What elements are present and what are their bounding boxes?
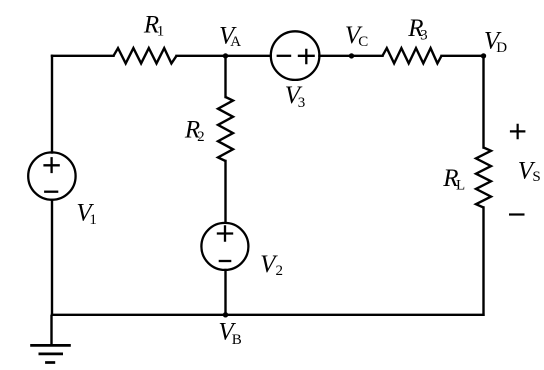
minus sign annotation for VS (509, 213, 525, 215)
wire V3 to R3 (through node C) (319, 55, 382, 57)
node D (481, 53, 486, 58)
svg-text:1: 1 (157, 24, 165, 40)
node A (223, 53, 228, 58)
label V1 (76, 199, 97, 228)
label VS (518, 157, 541, 185)
ground (30, 315, 71, 363)
resistor R2 (218, 97, 233, 161)
wire RL to bottom rail (482, 208, 484, 315)
node C (349, 53, 354, 58)
svg-text:A: A (230, 34, 241, 50)
plus sign annotation for VS (510, 124, 526, 140)
label R3 (407, 15, 427, 44)
wire node A to R2 (224, 56, 226, 97)
svg-text:3: 3 (298, 95, 306, 111)
label V2 (260, 251, 283, 279)
wire R2 to voltage source V2 (224, 161, 226, 223)
svg-text:S: S (532, 169, 540, 185)
voltage source V2 (201, 223, 248, 270)
resistor RL (476, 148, 491, 208)
svg-text:L: L (456, 178, 465, 194)
label RL (442, 165, 465, 194)
wire left rail lower (V1 to bottom rail) (51, 200, 53, 315)
svg-text:C: C (358, 34, 368, 50)
label node V_A (219, 22, 241, 50)
wire V2 to node B (224, 270, 226, 315)
label R2 (184, 116, 205, 145)
wire bottom rail (52, 314, 483, 316)
wire left rail upper (top-left corner down to V1) (51, 56, 53, 153)
wire top rail left segment (top-left corner to R1) (52, 55, 114, 57)
label node V_D (484, 27, 507, 56)
svg-text:2: 2 (197, 129, 205, 145)
label R1 (143, 12, 164, 40)
svg-text:B: B (232, 332, 242, 348)
resistor R3 (383, 48, 442, 63)
voltage source V3 (271, 31, 320, 80)
voltage source V1 (28, 152, 75, 199)
svg-text:D: D (496, 40, 507, 56)
node B (223, 312, 228, 317)
wire R1 to voltage source V3 (through node A) (177, 55, 271, 57)
svg-text:2: 2 (276, 263, 284, 279)
resistor R1 (114, 48, 177, 63)
wire node D down to RL (482, 56, 484, 148)
wire R3 to node D (442, 55, 484, 57)
label node V_C (345, 22, 368, 50)
svg-text:1: 1 (89, 212, 97, 228)
svg-text:3: 3 (420, 28, 428, 44)
label node V_B (218, 319, 241, 348)
label V3 (285, 82, 306, 111)
